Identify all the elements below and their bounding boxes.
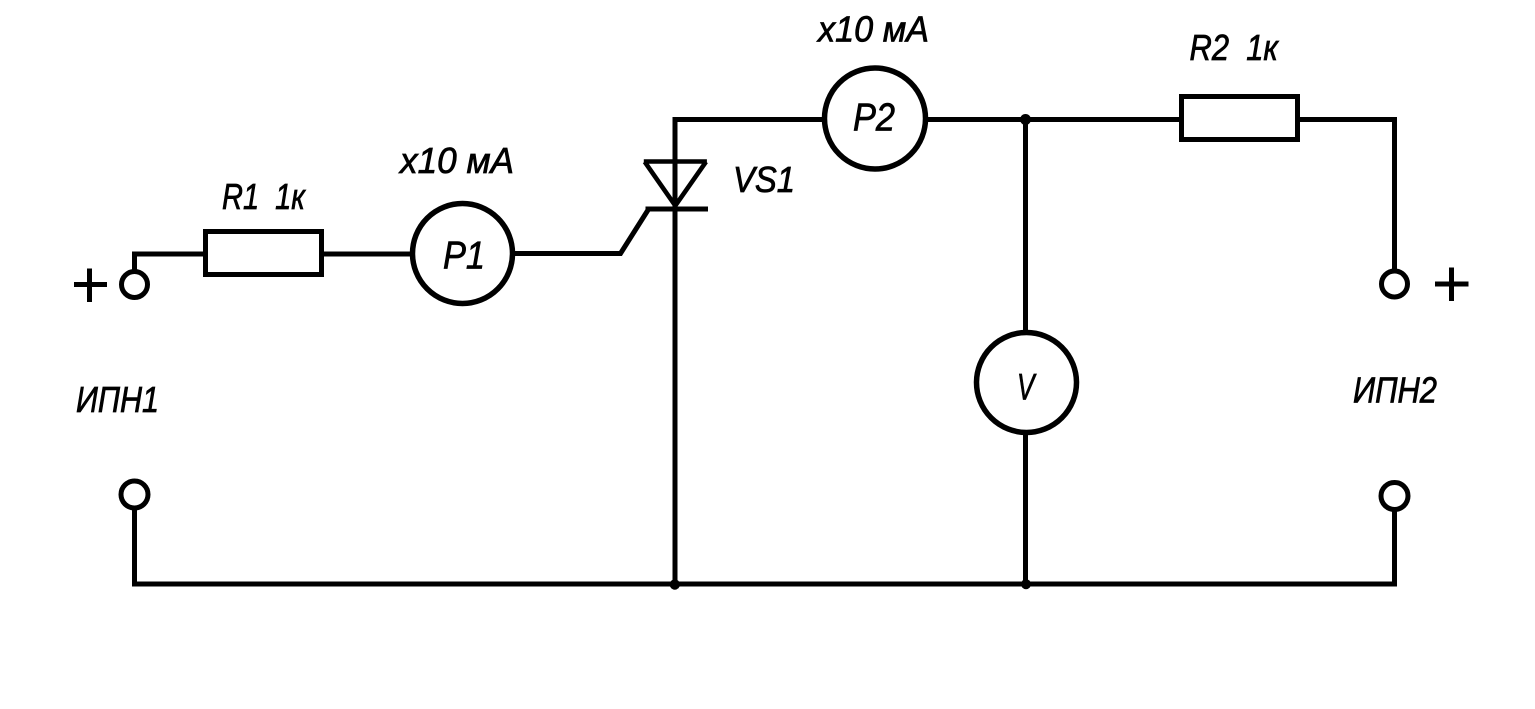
svg-text:VS1: VS1 <box>733 159 795 200</box>
svg-text:ИПН1: ИПН1 <box>76 379 159 420</box>
svg-text:R1 1к: R1 1к <box>222 176 307 217</box>
svg-text:P2: P2 <box>853 97 895 140</box>
svg-text:x10 мА: x10 мА <box>816 9 929 50</box>
svg-text:x10 мА: x10 мА <box>398 140 514 181</box>
svg-text:V: V <box>1017 367 1037 408</box>
svg-text:R2 1к: R2 1к <box>1190 27 1280 68</box>
svg-text:ИПН2: ИПН2 <box>1353 370 1437 411</box>
svg-text:P1: P1 <box>443 235 485 278</box>
